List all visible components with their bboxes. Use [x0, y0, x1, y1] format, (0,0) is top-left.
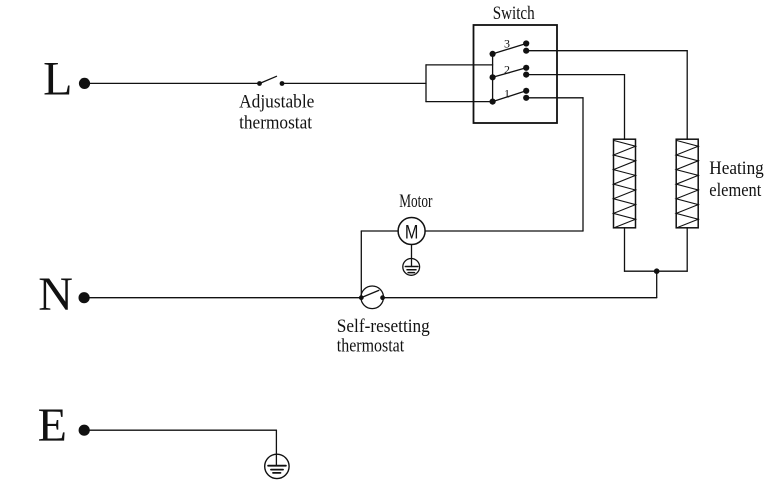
svg-text:N: N — [38, 268, 73, 321]
svg-text:2: 2 — [504, 62, 510, 76]
adjustable thermostat switch contact — [257, 76, 284, 86]
svg-text:thermostat: thermostat — [239, 112, 313, 133]
pin label 2 — [504, 62, 510, 76]
svg-text:element: element — [709, 180, 762, 201]
svg-text:Switch: Switch — [493, 3, 535, 24]
heating element left — [614, 139, 636, 228]
wire self-resetting thermostat to element bus junction — [383, 297, 657, 299]
terminal label E — [38, 399, 67, 452]
label Motor — [399, 191, 433, 212]
wire pole 2 to left heating element — [526, 75, 624, 140]
switch box S1 — [474, 25, 558, 123]
svg-text:L: L — [43, 53, 72, 106]
earth ground of motor — [403, 259, 420, 276]
switch common bus — [492, 54, 494, 102]
terminal label L — [43, 53, 72, 106]
svg-text:Self-resetting: Self-resetting — [337, 316, 430, 337]
svg-text:M: M — [405, 222, 419, 243]
switch input bracket — [426, 65, 493, 102]
wire element bus to N line — [656, 271, 658, 297]
wire motor to earth — [411, 245, 413, 267]
label Self-resetting thermostat — [337, 316, 430, 357]
switch pole 1 — [490, 88, 530, 105]
wire pole 3 to right heating element — [526, 51, 687, 140]
svg-text:Adjustable: Adjustable — [239, 91, 314, 112]
wire adjustable thermostat to switch input — [282, 82, 426, 84]
pin label 1 — [504, 86, 510, 100]
wire E to earth — [84, 430, 276, 454]
wire motor left to N junction — [361, 231, 398, 298]
switch pole 2 — [490, 65, 530, 81]
node N — [79, 292, 90, 303]
wire heating elements bottom bus — [625, 228, 688, 271]
wire N to self-resetting thermostat — [84, 297, 361, 299]
label Adjustable thermostat — [239, 91, 314, 133]
self-resetting thermostat — [359, 286, 385, 309]
svg-text:1: 1 — [504, 86, 510, 100]
svg-text:3: 3 — [504, 37, 510, 51]
svg-text:Motor: Motor — [399, 191, 433, 212]
wire L to adjustable thermostat — [85, 82, 260, 84]
node E — [79, 425, 90, 436]
earth ground of E — [265, 454, 289, 478]
wire pole 1 to motor — [425, 98, 583, 231]
svg-text:E: E — [38, 399, 67, 452]
terminal label N — [38, 268, 73, 321]
pin label 3 — [504, 37, 510, 51]
node L — [79, 78, 90, 89]
motor M1 — [398, 218, 425, 245]
heating element right — [676, 139, 698, 228]
switch pole 3 — [490, 40, 530, 57]
svg-text:thermostat: thermostat — [337, 336, 405, 357]
label Heating element — [709, 158, 764, 201]
label Switch — [493, 3, 535, 24]
svg-text:Heating: Heating — [709, 158, 764, 179]
junction node on element bus — [654, 268, 660, 274]
